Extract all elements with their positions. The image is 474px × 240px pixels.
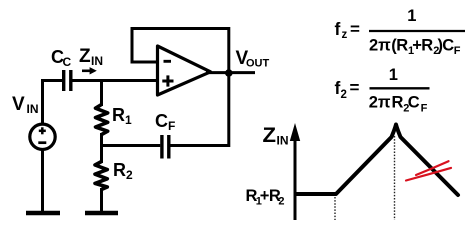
formula f2 = 1 / (2pi R2CF) <box>335 66 430 115</box>
label VIN <box>12 94 39 116</box>
svg-text:R: R <box>112 105 125 125</box>
svg-text:IN: IN <box>27 102 39 116</box>
svg-text:1: 1 <box>407 7 416 25</box>
svg-text:F: F <box>421 103 428 115</box>
wire node to CF <box>100 144 160 147</box>
node VOUT junction <box>225 69 233 77</box>
label CF <box>155 111 175 133</box>
op-amp U1 <box>158 46 211 95</box>
svg-text:F: F <box>168 119 175 133</box>
svg-text:C: C <box>408 94 420 112</box>
svg-text:Z: Z <box>79 46 91 67</box>
ground (under VIN) <box>26 211 60 216</box>
svg-text:2: 2 <box>341 89 347 101</box>
svg-text:2: 2 <box>278 196 284 208</box>
svg-text:+R: +R <box>412 37 433 55</box>
svg-text:=: = <box>350 78 360 97</box>
wire R2 bottom to ground <box>100 188 103 212</box>
svg-text:2: 2 <box>126 168 133 182</box>
wire from CC to op-amp + input <box>73 79 158 82</box>
red break marks <box>406 161 451 180</box>
impedance curve <box>296 125 459 196</box>
resistor R1 <box>96 105 108 135</box>
resistor R2 <box>95 162 107 190</box>
dotted line at f2 <box>394 136 396 220</box>
svg-text:R: R <box>113 160 126 180</box>
svg-text:)C: )C <box>438 37 455 55</box>
voltage source VIN <box>30 124 55 149</box>
svg-text:C: C <box>155 111 168 131</box>
svg-text:V: V <box>12 94 25 115</box>
feedback wire (- input to output) <box>132 29 229 74</box>
svg-text:IN: IN <box>277 134 289 148</box>
svg-text:C: C <box>63 55 72 69</box>
svg-text:Z: Z <box>263 124 277 147</box>
svg-text:1: 1 <box>389 66 398 84</box>
wire output stub <box>206 71 255 74</box>
svg-text:2π: 2π <box>369 37 391 55</box>
capacitor CF <box>162 135 169 159</box>
svg-text:f: f <box>335 19 341 39</box>
dotted line at fz <box>334 197 336 220</box>
svg-text:OUT: OUT <box>246 58 270 70</box>
svg-text:2π: 2π <box>369 94 391 112</box>
svg-text:=: = <box>350 19 360 38</box>
wire from source top to capacitor CC <box>43 81 63 125</box>
capacitor CC <box>64 70 71 91</box>
label R2 <box>113 160 133 182</box>
wire from source bottom to ground <box>41 149 44 212</box>
svg-text:(R: (R <box>391 37 408 55</box>
Zin arrow <box>82 67 97 74</box>
label R1 <box>112 105 132 127</box>
Zin axis <box>290 123 300 220</box>
svg-text:IN: IN <box>91 54 103 68</box>
svg-text:F: F <box>454 45 461 57</box>
ground (under R2) <box>85 211 118 216</box>
wire R1 bottom to node and R2 top <box>100 133 103 163</box>
label R1+R2 (plot) <box>246 187 285 208</box>
formula fz = 1 / (2pi (R1+R2)CF) <box>335 7 466 57</box>
label ZIN (circuit) <box>79 46 103 68</box>
wire R1 top lead from input node <box>100 81 103 107</box>
label ZIN (plot) <box>263 124 289 148</box>
svg-text:z: z <box>342 29 348 41</box>
label VOUT <box>236 48 270 70</box>
wire CF to output vertical <box>171 75 229 146</box>
svg-text:1: 1 <box>125 113 132 127</box>
svg-text:R: R <box>392 94 404 112</box>
label CC <box>51 47 72 69</box>
